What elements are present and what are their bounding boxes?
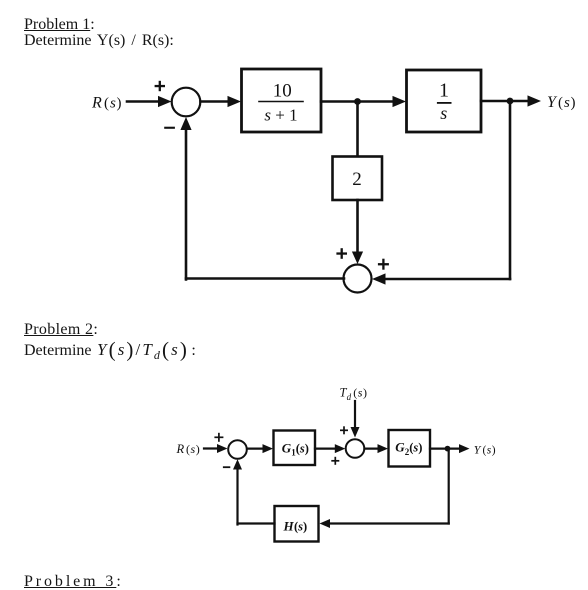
wire block 10/(s+1) to block 1/s xyxy=(321,96,406,107)
value label 10/(s+1) xyxy=(259,81,303,125)
svg-text:s + 1: s + 1 xyxy=(264,106,297,125)
block transfer function 10/(s+1) xyxy=(242,69,322,132)
caption Determine Y(s) / R(s): xyxy=(24,33,174,49)
svg-text:s: s xyxy=(564,95,570,111)
node Y(s) output label (problem 2) xyxy=(474,443,496,457)
plus sign at S4 left input xyxy=(331,457,339,465)
wire S2 output left along bottom xyxy=(186,277,344,280)
plus sign at S2 right input xyxy=(378,259,389,270)
svg-text:Y: Y xyxy=(547,94,558,111)
block integrator 1/s xyxy=(407,70,482,132)
node N1 takeoff dot xyxy=(354,98,361,105)
wire S3 to G1 xyxy=(247,444,273,453)
wire block 2 down to summer S2 xyxy=(352,200,363,264)
svg-text:): ) xyxy=(492,445,496,457)
minus sign at S3 feedback input xyxy=(223,466,230,468)
heading Problem 2 xyxy=(24,322,98,338)
svg-text:): ) xyxy=(571,95,576,111)
node R(s) input label (problem 2) xyxy=(176,442,200,456)
svg-text:d: d xyxy=(347,392,352,402)
svg-text:H: H xyxy=(283,518,295,533)
svg-text:): ) xyxy=(196,442,200,456)
svg-text:G: G xyxy=(395,440,405,455)
value label G1(s) xyxy=(282,440,309,457)
wire up into S3 feedback xyxy=(233,459,242,524)
wire H(s) output left along bottom xyxy=(238,522,275,524)
summing junction S2 xyxy=(344,265,372,293)
wire S1 to block 10/(s+1) xyxy=(201,96,242,107)
svg-text:R: R xyxy=(176,442,185,456)
wire Td(s) down into S4 xyxy=(351,401,360,438)
wire block 1/s to Y(s) output xyxy=(481,95,541,106)
svg-text:(: ( xyxy=(186,442,190,456)
svg-text:s: s xyxy=(440,103,447,123)
svg-text:): ) xyxy=(117,96,122,112)
svg-text:s: s xyxy=(110,96,116,112)
wire R(s) to summer S3 xyxy=(204,444,228,453)
plus sign at S1 input xyxy=(155,81,165,91)
minus sign at S1 feedback input xyxy=(164,127,175,129)
node Td(s) disturbance input label xyxy=(340,386,368,402)
svg-text:(s): (s) xyxy=(409,441,422,455)
svg-text:Y: Y xyxy=(474,443,482,457)
value label G2(s) xyxy=(395,440,422,457)
summing junction S4 xyxy=(346,439,365,458)
wire N1 down to block 2 xyxy=(356,102,359,157)
svg-text:(: ( xyxy=(558,95,563,111)
wire up to S1 feedback xyxy=(180,117,191,280)
plus sign at S3 input xyxy=(214,433,223,442)
block G2(s) xyxy=(389,430,431,467)
plus sign at S2 top input xyxy=(336,248,347,259)
node R(s) input label xyxy=(91,95,122,112)
svg-text:(s): (s) xyxy=(294,519,307,533)
value label 1/s xyxy=(438,80,451,124)
wire Y branch down right side xyxy=(509,101,512,279)
wire S4 to G2 xyxy=(365,444,389,453)
svg-text:(: ( xyxy=(104,96,109,112)
svg-text:10: 10 xyxy=(273,81,292,102)
node N2 takeoff dot xyxy=(507,98,514,105)
svg-text:G: G xyxy=(282,440,292,455)
svg-text:(: ( xyxy=(353,386,357,400)
summing junction S1 xyxy=(172,88,201,117)
node N3 takeoff dot xyxy=(445,446,451,452)
block G1(s) xyxy=(274,431,316,466)
wire right side into H(s) xyxy=(320,519,449,528)
svg-text:R: R xyxy=(91,95,102,112)
wire N3 down right side xyxy=(448,449,450,524)
summing junction S3 xyxy=(228,440,247,459)
heading Problem 3 (cut off at page bottom) xyxy=(24,574,124,590)
svg-text:): ) xyxy=(363,386,367,400)
wire R(s) to summer S1 with arrowhead xyxy=(127,96,172,107)
block H(s) xyxy=(275,506,319,542)
wire G1 to summer S4 xyxy=(315,444,345,453)
node Y(s) output label xyxy=(547,94,576,111)
svg-text:(s): (s) xyxy=(296,441,309,455)
wire G2 to Y(s) output xyxy=(430,444,470,453)
svg-text:1: 1 xyxy=(439,80,449,102)
svg-text:2: 2 xyxy=(352,169,362,190)
caption Determine Y(s)/Td(s): xyxy=(24,340,196,365)
plus sign at S4 top input xyxy=(340,426,348,434)
value label H(s) xyxy=(283,518,308,533)
heading Problem 1 xyxy=(24,17,95,33)
wire right side to S2 xyxy=(372,273,510,284)
block gain 2 xyxy=(333,157,383,201)
